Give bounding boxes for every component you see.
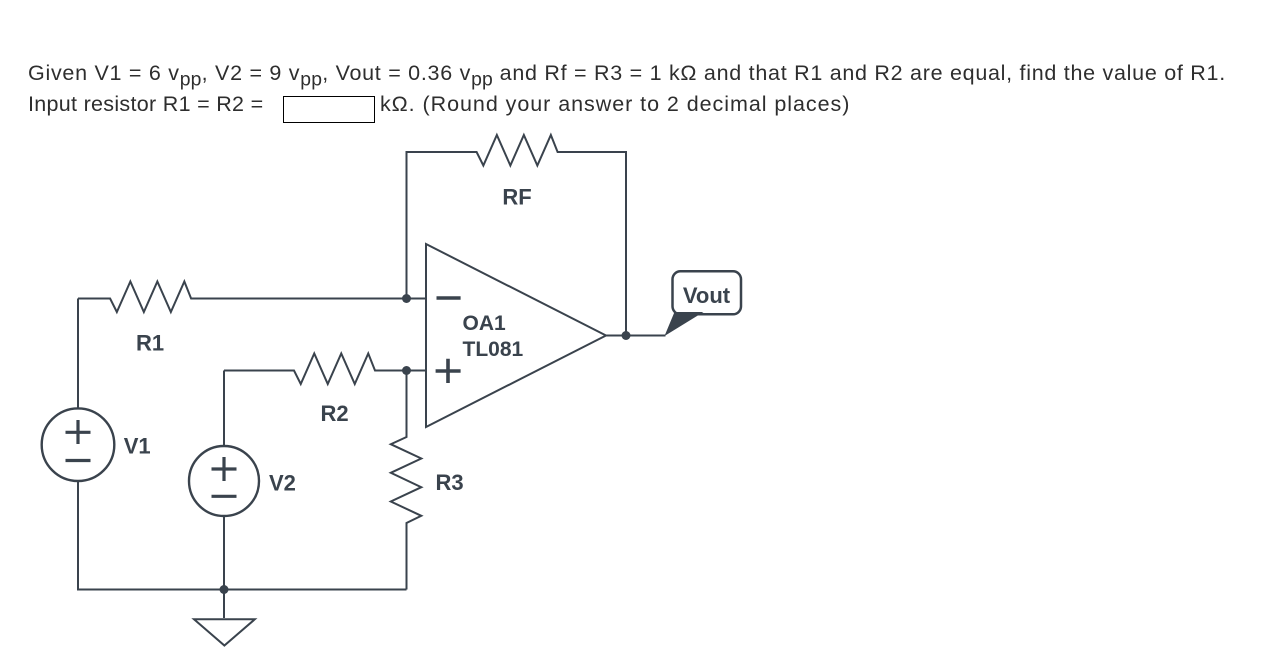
svg-text:OA1: OA1 (463, 312, 507, 335)
svg-text:V2: V2 (269, 471, 296, 496)
svg-text:RF: RF (502, 185, 531, 210)
svg-text:R1: R1 (136, 331, 164, 356)
svg-text:TL081: TL081 (463, 338, 524, 361)
svg-text:V1: V1 (124, 434, 151, 459)
svg-text:R3: R3 (436, 470, 464, 495)
svg-text:Vout: Vout (683, 283, 731, 308)
svg-text:R2: R2 (320, 401, 348, 426)
